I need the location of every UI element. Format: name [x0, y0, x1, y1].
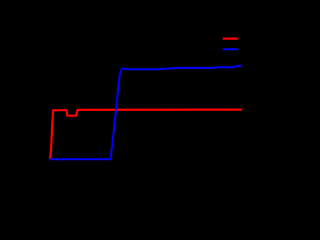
legend blue line sample — [223, 48, 238, 50]
red curve — [50, 110, 242, 159]
legend red line sample — [223, 37, 238, 39]
blue curve — [50, 66, 242, 160]
